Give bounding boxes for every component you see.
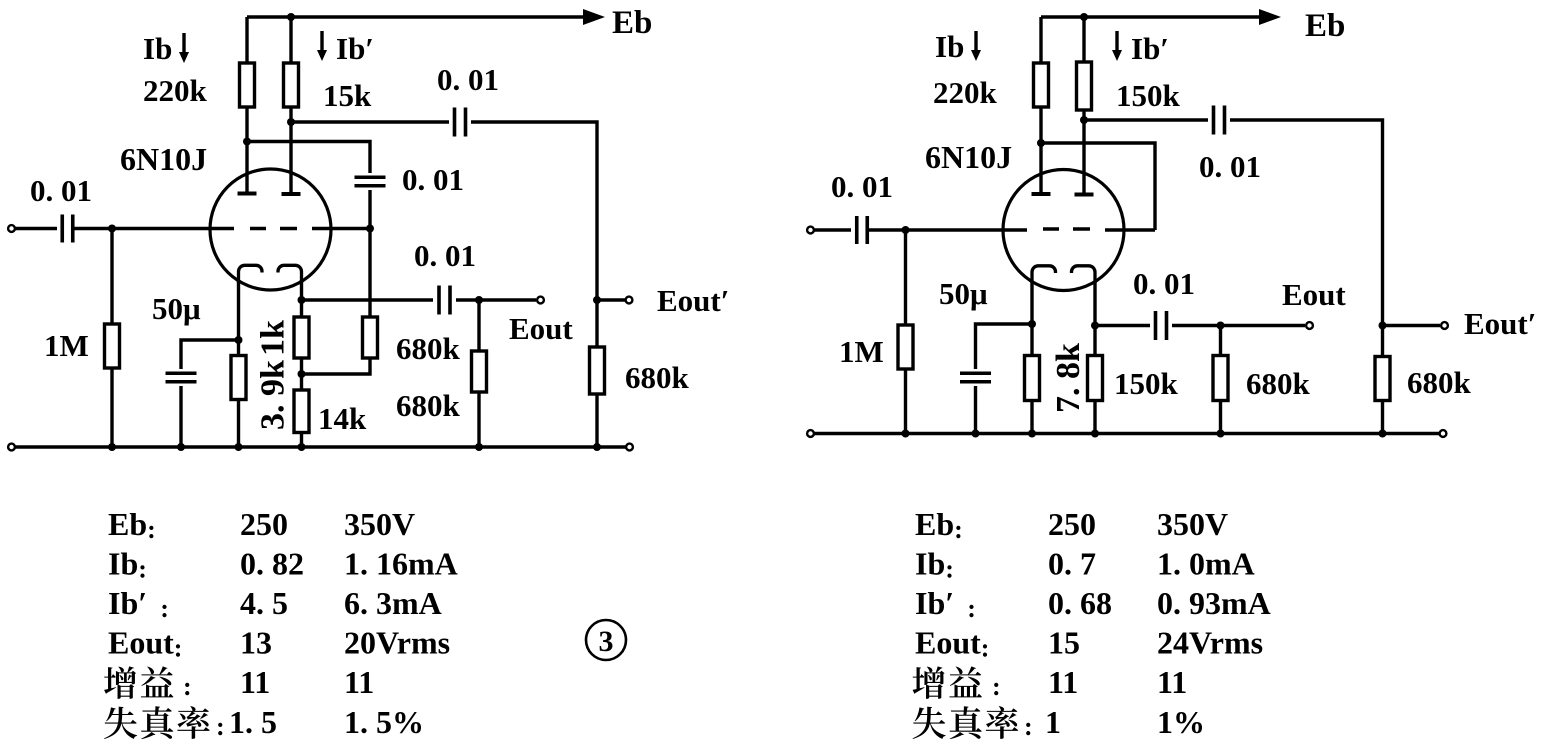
terminal ground left end (right circuit) [807, 430, 814, 437]
vacuum tube V1 6N10J (left) [210, 169, 331, 290]
terminal Eout (right) [1306, 322, 1313, 329]
svg-text:150k: 150k [1114, 366, 1179, 401]
resistor R2 15k [284, 63, 299, 107]
marker: circled figure number 3 [586, 620, 626, 660]
wire: R16 bottom lead [1219, 401, 1222, 434]
arrow: Ib current (right) [971, 31, 981, 61]
svg-text:680k: 680k [625, 360, 690, 395]
svg-text:1M: 1M [839, 334, 884, 369]
svg-text:1. 5: 1. 5 [229, 704, 277, 740]
wire: R10 bottom lead to plate 1 [1039, 107, 1042, 194]
wire: R12 bottom lead [904, 369, 907, 434]
svg-text:0. 01: 0. 01 [831, 169, 893, 204]
terminal input (right) [807, 227, 814, 234]
wire: plate1 junction to C2 [247, 142, 370, 174]
node: grid1 / R12 junction (right) [902, 226, 910, 234]
wire: R16 top lead [1219, 326, 1222, 356]
svg-text:Eout′: Eout′ [657, 283, 729, 318]
wire: left ground rail [15, 445, 626, 448]
svg-text:680k: 680k [396, 331, 461, 366]
node: R4 ground (left) [108, 443, 116, 451]
node: R9 ground (left) [593, 443, 601, 451]
table right row 5 label [913, 666, 982, 698]
terminal input (left) [8, 225, 15, 232]
svg-text:50μ: 50μ [152, 291, 201, 326]
svg-text:11: 11 [344, 664, 374, 700]
svg-text:Eout: Eout [509, 311, 573, 346]
resistor R4 1M (grid leak input, left) [105, 324, 120, 368]
terminal Eout-prime (right) [1441, 322, 1448, 329]
node: plate1 / C2 junction [243, 138, 251, 146]
svg-text:680k: 680k [1246, 366, 1311, 401]
svg-text:0. 01: 0. 01 [414, 238, 476, 273]
resistor R11 150k [1077, 62, 1092, 110]
terminal ground right end (right circuit) [1440, 430, 1447, 437]
node: grid2 junction (left) [366, 225, 374, 233]
wire: cathode1 lead to R13 [1030, 281, 1033, 356]
wire: C7 to grid1 node [867, 228, 906, 231]
node: right top rail junction at R11 [1080, 13, 1088, 21]
capacitor C1 0.01 (left top coupling) [455, 108, 466, 137]
svg-text:6. 3mA: 6. 3mA [344, 585, 442, 621]
svg-text:680k: 680k [1407, 365, 1472, 400]
wire: R9 top lead [595, 300, 598, 347]
svg-text:3: 3 [599, 625, 614, 658]
svg-text:Eout′: Eout′ [1464, 306, 1536, 341]
svg-text:4. 5: 4. 5 [240, 585, 288, 621]
node: R16 ground (right) [1217, 430, 1225, 438]
svg-text::: : [992, 672, 1001, 701]
wire: C3 to grid1 node [73, 227, 113, 230]
svg-text:Ib: Ib [935, 29, 964, 64]
wire: C2 to grid2 node [368, 190, 371, 229]
svg-text::: : [1024, 712, 1033, 741]
node: R5 ground (left) [235, 443, 243, 451]
wire: C1 to Eout-prime branch corner [471, 122, 597, 300]
svg-text:680k: 680k [396, 388, 461, 423]
wire: R1 bottom lead to plate 1 [245, 107, 248, 193]
resistor R5 3.9k (cathode 1, left) [231, 356, 246, 400]
wire: cathode2 node to C5 [302, 298, 434, 301]
wire: grid2 node to R3 [368, 229, 371, 318]
node: R14 ground (right) [1091, 430, 1099, 438]
wire: R7 bottom lead [300, 433, 303, 448]
capacitor C8 50u (cathode bypass, right) [960, 373, 991, 382]
node: plate2 / C1 junction [287, 118, 295, 126]
resistor R12 1M (grid leak input, right) [898, 325, 913, 369]
table left row 5 label [104, 666, 173, 698]
resistor R15 680k (Eout-prime load, right) [1375, 357, 1390, 401]
svg-text:3. 9k: 3. 9k [255, 360, 292, 430]
svg-text::: : [216, 712, 225, 741]
svg-text:Ib′: Ib′ [1131, 31, 1169, 66]
svg-text:220k: 220k [933, 75, 998, 110]
resistor R10 220k [1034, 63, 1049, 107]
svg-text:0. 82: 0. 82 [240, 546, 304, 582]
node: plate1 junction (right) [1037, 139, 1045, 147]
vacuum tube V2 6N10J (right) [1003, 170, 1124, 291]
svg-text:Eout:: Eout: [915, 625, 989, 663]
svg-text:50μ: 50μ [939, 276, 988, 311]
wire: Eout-prime stub (right) [1383, 324, 1441, 327]
table left row 6 label [104, 706, 210, 739]
resistor R3 680k (grid leak, left) [363, 317, 378, 358]
wire: R11 top lead [1082, 17, 1085, 62]
svg-text:15: 15 [1048, 625, 1080, 661]
node: R7 ground (left) [298, 443, 306, 451]
arrow: Ib current (left) [179, 33, 189, 63]
svg-text:Eout:: Eout: [108, 625, 182, 663]
wire: Eout-prime stub [597, 298, 625, 301]
svg-text:7. 8k: 7. 8k [1050, 343, 1087, 413]
resistor R13 7.8k (cathode 1, right) [1025, 356, 1040, 401]
svg-text:150k: 150k [1116, 78, 1181, 113]
wire: R3 bottom to cathode divider tap [302, 358, 371, 374]
svg-text:0. 68: 0. 68 [1048, 585, 1112, 621]
wire: R8 bottom lead [477, 392, 480, 447]
wire: R15 bottom lead [1381, 401, 1384, 434]
capacitor C3 0.01 (input, left) [62, 215, 73, 243]
svg-text:Eout: Eout [1282, 277, 1346, 312]
wire: R11 bottom lead to plate 2 [1082, 110, 1085, 196]
resistor R1 220k [240, 63, 255, 107]
wire: C6 to Eout-prime branch corner [1230, 120, 1383, 326]
resistor R7 14k (cathode 2 lower, left) [294, 390, 309, 433]
svg-text:0. 93mA: 0. 93mA [1157, 585, 1271, 621]
svg-text:350V: 350V [344, 506, 415, 542]
wire: plate2 to C6 [1084, 118, 1208, 121]
capacitor C2 0.01 (interstage, left) [355, 177, 386, 186]
resistor R8 680k (Eout load, left) [472, 351, 487, 392]
node: C4 ground (left) [177, 443, 185, 451]
svg-text:24Vrms: 24Vrms [1157, 625, 1263, 661]
wire: left B+ top rail from R1 to Eb arrow [247, 15, 583, 18]
capacitor C7 0.01 (input, right) [857, 216, 868, 244]
svg-text:13: 13 [240, 625, 272, 661]
svg-text:11: 11 [1048, 664, 1078, 700]
resistor R14 150k (cathode 2, right) [1088, 356, 1103, 401]
node: R13 ground (right) [1028, 430, 1036, 438]
svg-text:0. 01: 0. 01 [1133, 266, 1195, 301]
wire: C4 top link [181, 340, 239, 369]
svg-text:250: 250 [1048, 506, 1096, 542]
svg-text:6N10J: 6N10J [925, 139, 1012, 175]
svg-text:1. 5%: 1. 5% [344, 704, 424, 740]
svg-text:Ib′: Ib′ [336, 31, 374, 66]
terminal Eout-prime (left) [626, 297, 633, 304]
wire: right B+ top rail from R10 to Eb arrow [1041, 15, 1259, 18]
table right row 6 label [913, 706, 1019, 739]
svg-text:0. 01: 0. 01 [402, 162, 464, 197]
node: cathode2 / Eout junction [298, 296, 306, 304]
svg-text:11: 11 [1157, 664, 1187, 700]
svg-text:350V: 350V [1157, 506, 1228, 542]
wire: C4 bottom lead [179, 386, 182, 447]
resistor R16 680k (Eout load, right) [1213, 356, 1228, 401]
svg-text:Eb: Eb [612, 5, 652, 41]
svg-text:11: 11 [240, 664, 270, 700]
terminal ground left end (left circuit) [8, 444, 15, 451]
resistor R6 1k (cathode 2 upper, left) [294, 317, 309, 358]
resistor R9 680k (Eout-prime load, left) [590, 347, 605, 394]
arrow: Ib-prime current (right) [1112, 31, 1122, 61]
wire: plate2 to C1 [291, 120, 449, 123]
wire: cathode2 node to C9 [1095, 324, 1150, 327]
wire: right ground rail [814, 432, 1439, 435]
wire: R1 top lead [245, 17, 248, 63]
wire: R9 bottom lead [595, 394, 598, 447]
svg-text:Ib: Ib [143, 31, 172, 66]
svg-text:1k: 1k [255, 320, 292, 356]
wire: R12 top lead [904, 230, 907, 325]
svg-text:Eb: Eb [1305, 8, 1345, 44]
node: cathode1 / C4 junction [235, 336, 243, 344]
svg-text:1. 16mA: 1. 16mA [344, 546, 458, 582]
wire: C5 to Eout [456, 298, 536, 301]
svg-text:1%: 1% [1157, 704, 1205, 740]
svg-text:1. 0mA: 1. 0mA [1157, 546, 1255, 582]
node: grid1 / R4 junction [108, 225, 116, 233]
capacitor C4 50u (cathode bypass, left) [166, 373, 197, 382]
wire: R2 top lead [289, 17, 292, 63]
wire: C9 to Eout [1172, 324, 1305, 327]
node: R8 ground (left) [475, 443, 483, 451]
node: R6/R7 divider tap [298, 370, 306, 378]
svg-text:6N10J: 6N10J [120, 141, 207, 177]
wire: R15 top lead [1381, 326, 1384, 357]
wire: cathode1 lead to R5 [237, 280, 240, 356]
wire: R10 top lead [1039, 17, 1042, 63]
capacitor C5 0.01 (output, left) [439, 286, 450, 315]
svg-text:0. 01: 0. 01 [1199, 149, 1261, 184]
terminal Eout (left) [537, 297, 544, 304]
arrow: Ib-prime current (left) [317, 31, 327, 61]
wire: R5 bottom lead [237, 400, 240, 448]
wire: R6 to R7 [300, 358, 303, 390]
wire: input to C3 [15, 227, 57, 230]
svg-text:0. 7: 0. 7 [1048, 546, 1096, 582]
capacitor C6 0.01 (right top coupling) [1214, 106, 1225, 135]
node: Eout / R16 junction (right) [1217, 322, 1225, 330]
node: plate2 / C6 junction [1080, 116, 1088, 124]
wire: grid2 solid segment (right) [1105, 228, 1155, 231]
wire: grid1 solid segment into tube (left) [113, 227, 370, 230]
svg-text:20Vrms: 20Vrms [344, 625, 450, 661]
terminal ground right end (left circuit) [626, 444, 633, 451]
svg-text::: : [183, 672, 192, 701]
node: Eout-prime junction [593, 296, 601, 304]
wire: R4 top lead [110, 229, 113, 325]
svg-text:220k: 220k [143, 73, 208, 108]
svg-text:250: 250 [240, 506, 288, 542]
svg-text:1M: 1M [44, 328, 89, 363]
wire: R13 bottom lead [1030, 401, 1033, 434]
svg-text:0. 01: 0. 01 [30, 173, 92, 208]
node: C8 ground (right) [972, 430, 980, 438]
wire: R4 bottom lead [110, 368, 113, 447]
wire: R2 bottom lead to plate 2 [289, 107, 292, 194]
svg-text:1: 1 [1045, 704, 1061, 740]
node: R15 ground (right) [1379, 430, 1387, 438]
svg-text:15k: 15k [323, 78, 372, 113]
node: cathode1 / C8 junction (right) [1028, 320, 1036, 328]
wire: R14 bottom lead [1093, 401, 1096, 434]
wire: C8 bottom lead [974, 386, 977, 434]
wire: R8 top lead [477, 300, 480, 351]
capacitor C9 0.01 (output, right) [1156, 311, 1167, 340]
wire: C8 top link [976, 324, 1033, 369]
svg-text:0. 01: 0. 01 [437, 62, 499, 97]
wire: cathode2 lead to node [300, 280, 303, 317]
node: Eout-prime junction (right) [1379, 322, 1387, 330]
node: R12 ground (right) [902, 430, 910, 438]
wire: input to C7 [814, 228, 851, 231]
wire: grid1 solid segment into tube (right) [906, 228, 1027, 231]
wire: cathode2 lead to node (right) [1093, 281, 1096, 356]
svg-text:14k: 14k [318, 401, 367, 436]
node: cathode2 / Eout junction (right) [1091, 322, 1099, 330]
wire: direct coupling plate1 to grid2 [1041, 143, 1155, 230]
node: left top rail junction at R2 [287, 13, 295, 21]
node: Eout / R8 junction [475, 296, 483, 304]
